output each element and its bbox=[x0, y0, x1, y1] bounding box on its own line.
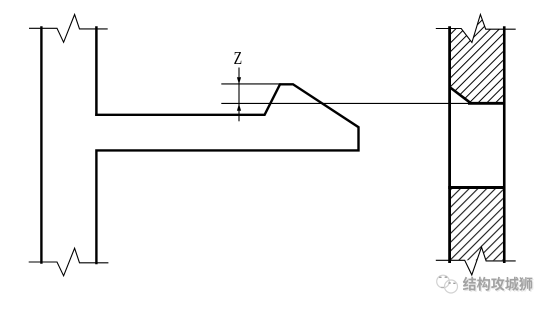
svg-text:Z: Z bbox=[234, 48, 243, 68]
